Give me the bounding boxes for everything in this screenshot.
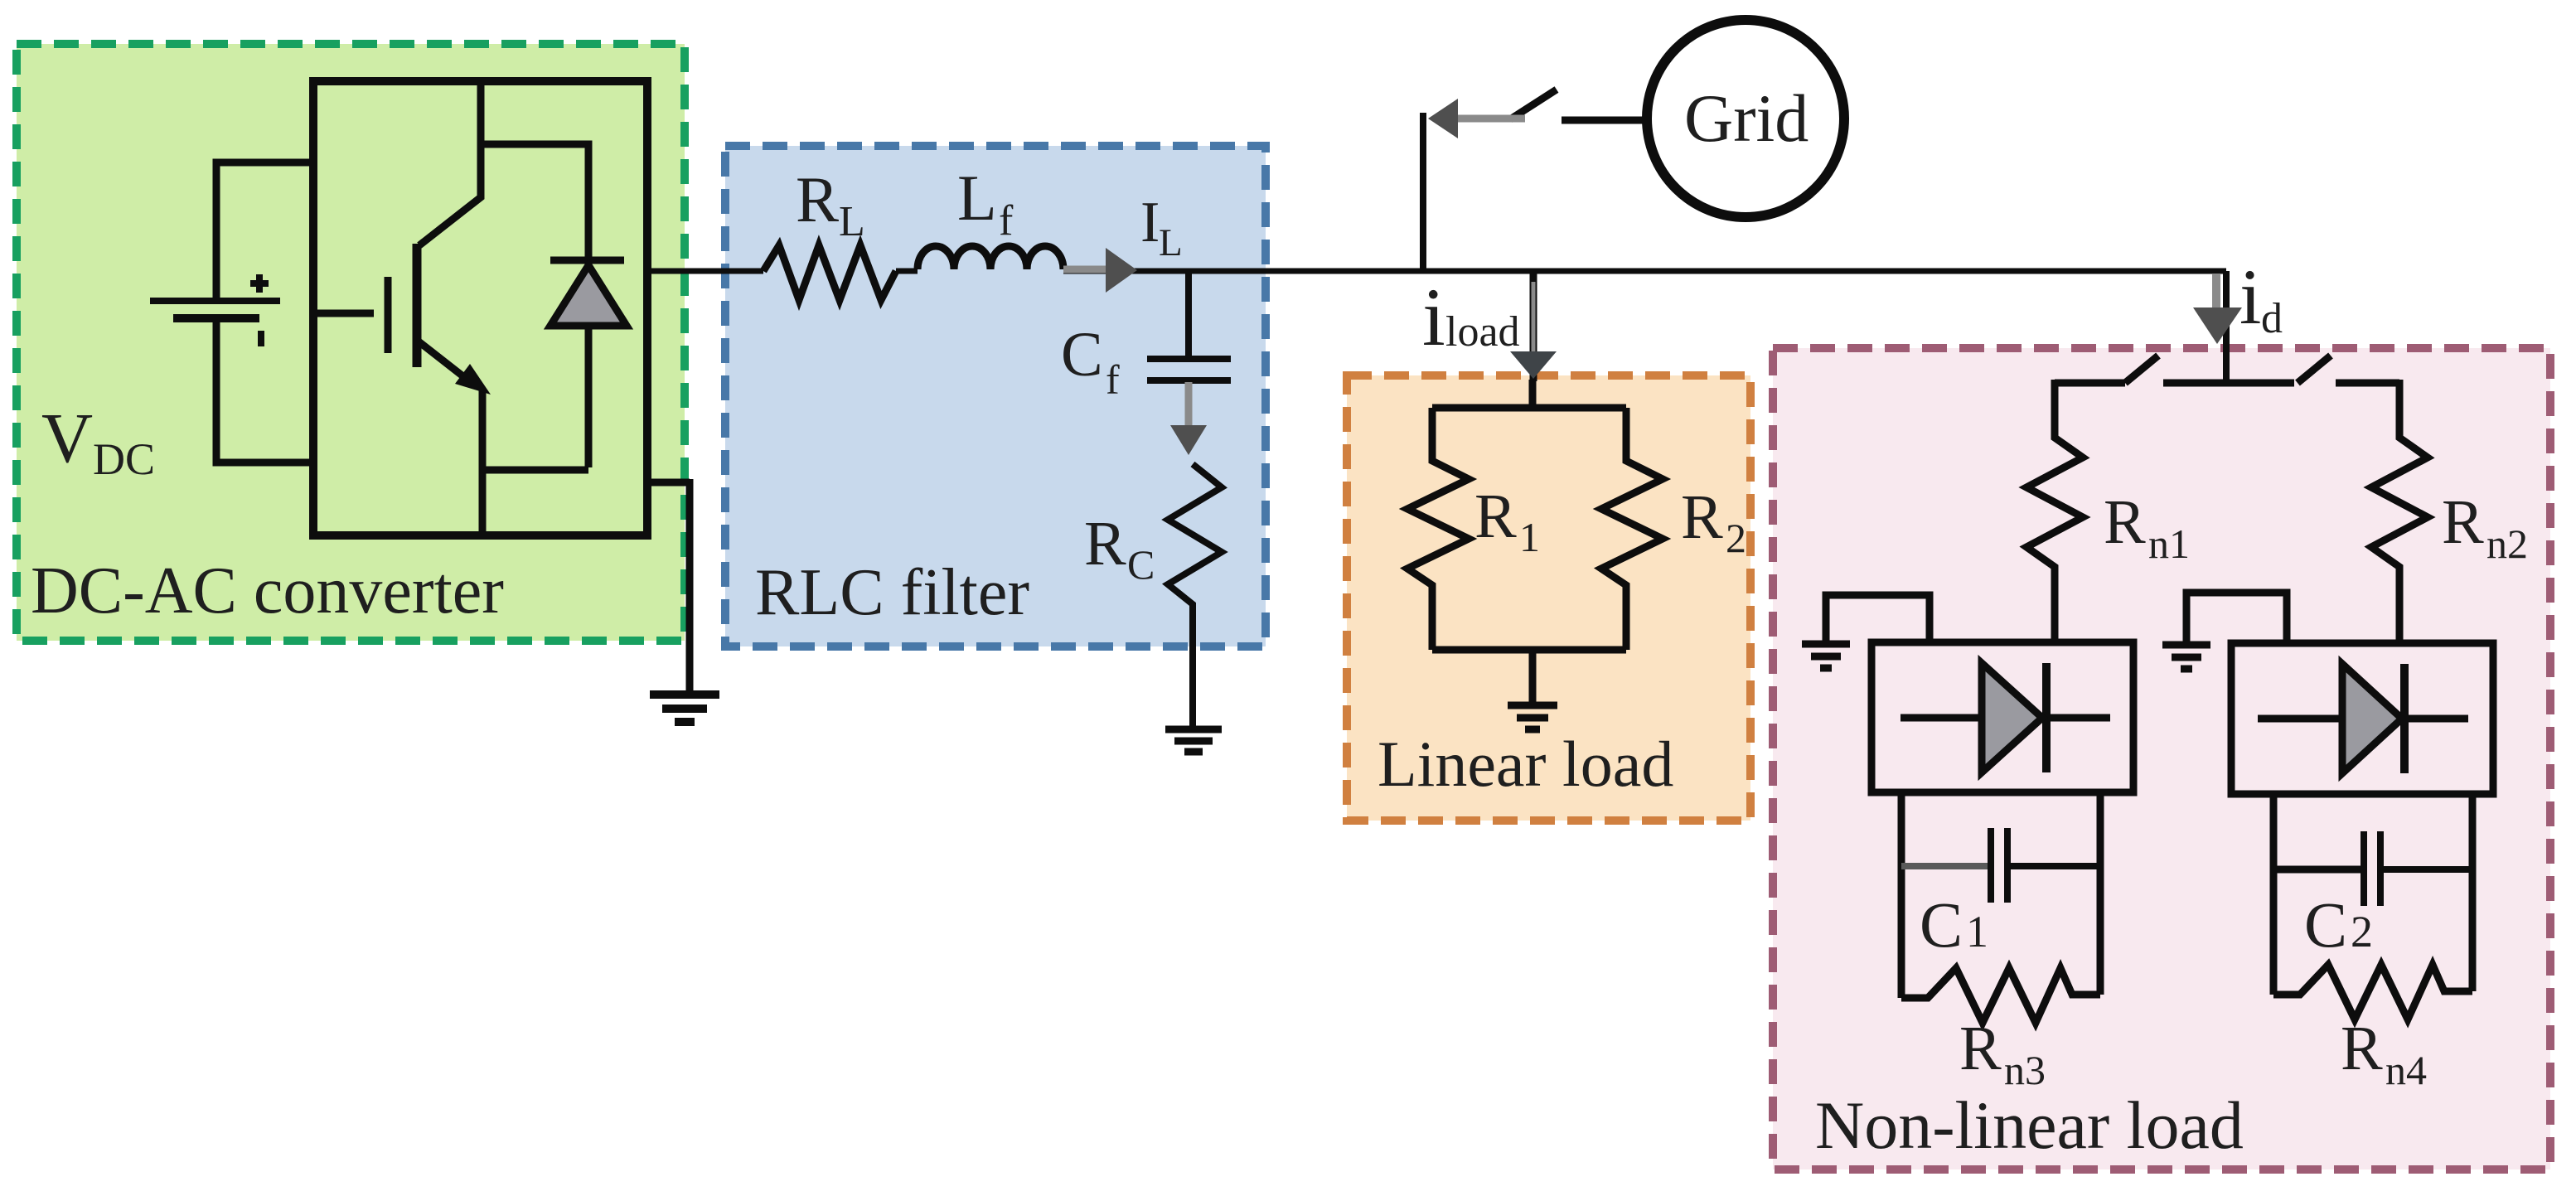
svg-text:V: V <box>41 398 93 477</box>
svg-text:C: C <box>2304 889 2347 961</box>
svg-text:n2: n2 <box>2486 521 2528 567</box>
svg-text:R: R <box>1474 482 1517 551</box>
svg-text:n3: n3 <box>2004 1047 2046 1093</box>
svg-text:L: L <box>1159 221 1183 264</box>
svg-text:R: R <box>1959 1014 2002 1083</box>
svg-text:RLC filter: RLC filter <box>755 556 1029 629</box>
svg-text:L: L <box>839 198 865 245</box>
svg-text:load: load <box>1445 308 1520 356</box>
svg-text:C: C <box>1127 541 1155 588</box>
svg-text:f: f <box>1106 356 1120 403</box>
svg-text:1: 1 <box>1966 907 1988 956</box>
svg-text:R: R <box>2442 487 2484 557</box>
svg-text:DC-AC converter: DC-AC converter <box>31 554 504 627</box>
svg-text:Non-linear load: Non-linear load <box>1815 1087 2244 1163</box>
svg-text:R: R <box>2341 1014 2383 1083</box>
svg-text:C: C <box>1920 889 1963 961</box>
svg-text:f: f <box>999 197 1014 245</box>
svg-text:n1: n1 <box>2148 521 2190 567</box>
svg-text:L: L <box>957 162 997 234</box>
svg-text:1: 1 <box>1519 514 1540 560</box>
svg-text:2: 2 <box>1726 515 1746 561</box>
svg-text:R: R <box>1084 509 1126 579</box>
svg-text:Grid: Grid <box>1684 80 1809 156</box>
svg-text:R: R <box>1681 482 1723 552</box>
svg-text:C: C <box>1061 320 1103 390</box>
svg-text:n4: n4 <box>2385 1047 2427 1093</box>
svg-text:R: R <box>796 163 839 235</box>
svg-text:i: i <box>1422 271 1445 363</box>
svg-text:Linear load: Linear load <box>1378 728 1673 800</box>
svg-text:i: i <box>2239 253 2261 341</box>
svg-text:I: I <box>1140 191 1160 254</box>
svg-text:R: R <box>2104 487 2146 557</box>
svg-text:DC: DC <box>93 434 155 484</box>
svg-text:2: 2 <box>2351 907 2373 956</box>
svg-text:d: d <box>2261 295 2283 342</box>
